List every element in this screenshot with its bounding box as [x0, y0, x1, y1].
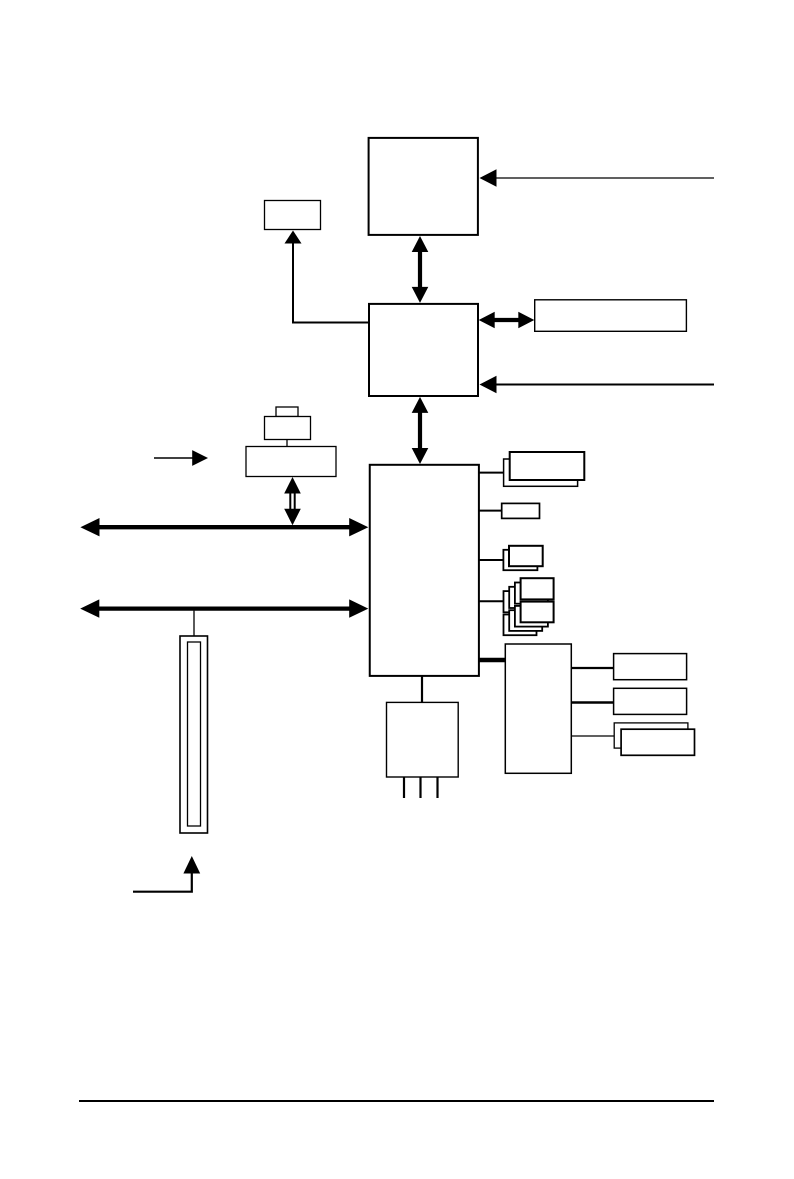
small port box [502, 503, 540, 518]
wire south bridge to port cascade [479, 600, 504, 602]
port box A [614, 654, 687, 680]
BIOS pin 3 [436, 777, 438, 798]
wire into north bridge lower right [495, 384, 714, 386]
memory DIMM wide box [246, 447, 336, 477]
wire south bridge to IDE stack [479, 559, 504, 561]
PCI slot inner [188, 642, 201, 826]
wire south bridge to small port box [479, 510, 502, 512]
small arrow pointer [154, 457, 193, 459]
USB stack front box [510, 452, 585, 480]
wire super I/O to port stack C [572, 735, 616, 737]
USB stack back box [504, 459, 578, 486]
footer rule [79, 1100, 714, 1102]
bus arrow CPU to north bridge (double-headed, thick) [412, 236, 429, 303]
IDE stack back box [503, 550, 537, 570]
PCI bus arrow (double-headed, thick) [80, 599, 368, 617]
port cascade lower back box 3 [504, 615, 537, 636]
port cascade upper back box 1 [515, 583, 548, 604]
bus arrow north bridge to south bridge (double-headed, thick) [412, 397, 429, 464]
box clock generator [265, 201, 321, 230]
wire into CPU right side [495, 177, 714, 179]
box south bridge [370, 465, 479, 676]
IDE stack front box [509, 546, 543, 566]
arrowhead up into clock generator [285, 231, 302, 244]
bus arrow north bridge to AGP box (double-headed) [479, 312, 535, 329]
box super I/O [505, 644, 571, 773]
wire PCI bus to slot [193, 611, 195, 637]
bus arrow DIMM to memory bus (double-headed, hollow shaft) [284, 477, 301, 525]
wire south bridge to USB stack [479, 472, 505, 474]
port stack C back box [614, 723, 688, 748]
wire super I/O to port box A [572, 667, 615, 669]
PCI slot outer [180, 636, 208, 833]
port cascade upper back box 3 [504, 591, 537, 612]
port stack C front box [621, 729, 694, 755]
memory module middle box [265, 417, 311, 440]
port cascade lower back box 1 [515, 606, 548, 627]
memory module tiny top box [276, 407, 298, 417]
thick wire south bridge to super I/O [479, 658, 506, 663]
box CPU [369, 138, 478, 235]
arrowhead up bottom pointer [183, 856, 200, 874]
wire L bottom pointer [133, 872, 192, 892]
wire memory middle to wide box [286, 440, 288, 447]
box north bridge [369, 304, 478, 396]
arrowhead into CPU right [480, 169, 497, 186]
wire south bridge to BIOS [421, 676, 423, 702]
BIOS pin 1 [403, 777, 405, 798]
port cascade upper front box [521, 578, 554, 599]
port box B [614, 688, 687, 714]
port cascade lower front box [521, 602, 554, 623]
wire L from north bridge to clock generator [293, 241, 369, 323]
memory bus arrow (double-headed, thick) [80, 518, 368, 536]
small arrow pointer head [192, 450, 208, 466]
arrowhead into north bridge lower right [480, 376, 497, 393]
box BIOS [387, 702, 459, 777]
port cascade lower back box 2 [509, 610, 542, 631]
box AGP/display cache (right of north bridge) [535, 300, 687, 332]
BIOS pin 2 [419, 777, 421, 798]
port cascade upper back box 2 [509, 587, 542, 608]
wire super I/O to port box B [572, 701, 615, 704]
